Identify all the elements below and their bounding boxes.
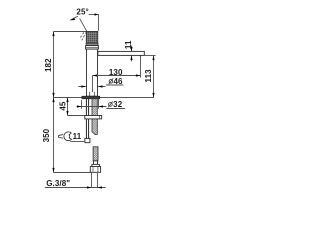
arrowheads for 182/350 [52,32,54,173]
inner body lines near base [89,92,91,96]
dimension 113 [144,56,155,98]
tailpiece collar [92,164,99,166]
outlet tick under spout tip [140,55,142,57]
dimension 11 (spout thickness) [131,46,133,62]
svg-text:11: 11 [73,132,82,141]
wrench leader line [70,141,85,143]
tailpiece neck [94,161,98,165]
pop-up rod end nut [85,138,90,142]
wrench symbol with 11 [58,132,71,141]
svg-text:182: 182 [44,58,53,72]
tilted handle construction lines [80,18,87,31]
dimension dia 46 [78,85,123,87]
dimension 45 [68,98,85,116]
dimension 182 / 350 shared vertical line [54,32,91,173]
svg-text:11: 11 [124,40,133,49]
below-deck: pop-up rod [85,99,87,139]
spout [98,51,144,55]
svg-text:46: 46 [113,77,123,86]
shaded ring below handle [86,43,98,45]
svg-text:G.3/8": G.3/8" [46,179,70,188]
base plate (dark) [82,96,100,99]
dimension G.3/8 [45,173,106,188]
svg-text:45: 45 [59,101,68,111]
tailpiece: threaded rod [93,147,98,161]
body column [86,49,97,96]
collar ring [86,46,99,50]
dimension dia 32 [77,99,126,109]
faucet: knurled handle [86,31,98,43]
counter/deck surface line [54,97,154,99]
svg-text:130: 130 [109,68,123,77]
dimension 130 [93,57,141,92]
tailpiece nut [90,167,100,173]
svg-text:32: 32 [113,100,123,109]
svg-text:113: 113 [144,69,153,83]
threaded shank (hatched) [92,99,97,135]
mounting nut [85,116,102,119]
svg-text:350: 350 [42,128,51,142]
svg-text:25°: 25° [76,7,88,16]
